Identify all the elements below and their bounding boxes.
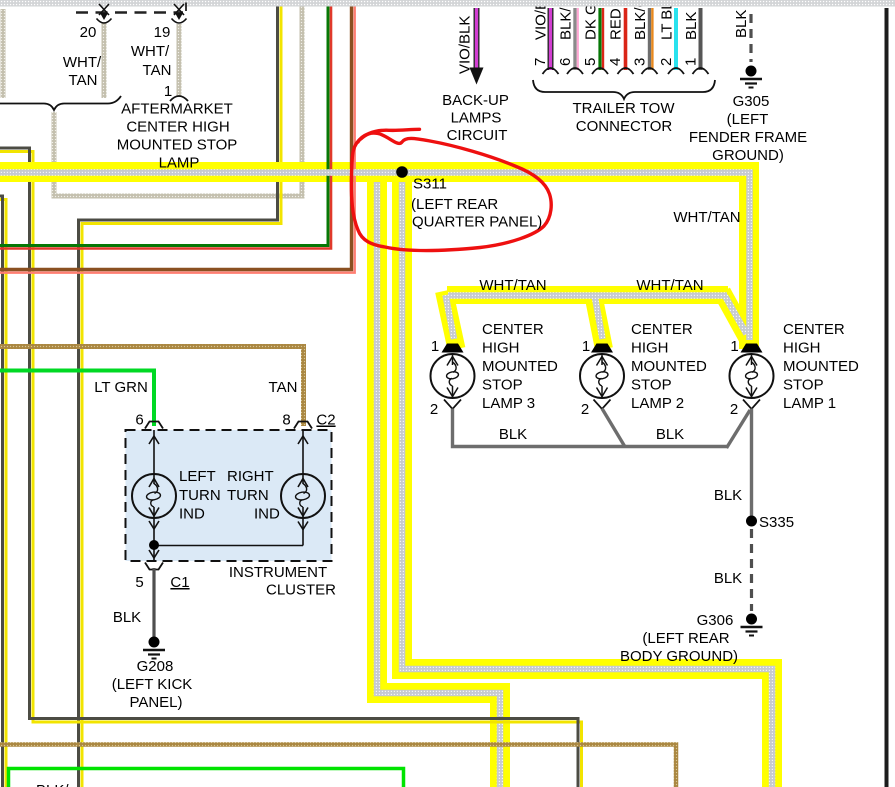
svg-text:QUARTER PANEL): QUARTER PANEL) [412,214,542,231]
highlighted diagonal core lamp 1 [725,296,747,334]
svg-text:1: 1 [730,338,738,355]
stop lamp 1 [730,344,774,410]
svg-text:CENTER: CENTER [631,321,693,338]
trailer pin 4 wire RED [624,8,628,70]
svg-text:S311: S311 [413,176,447,193]
highlighted diagonal to lamp 2 yellow [593,291,605,349]
cluster pin C1 cup [145,563,163,570]
svg-text:LAMP 1: LAMP 1 [783,395,836,412]
svg-text:1: 1 [164,83,172,100]
svg-text:C2: C2 [316,412,335,429]
trailer pin 2 wire LT BLU [674,8,678,70]
trailer pin 3 wire BLK/ORG [650,8,653,70]
svg-text:(LEFT REAR: (LEFT REAR [411,196,498,213]
S335 to G306 BLK dashed [750,529,753,611]
svg-text:3: 3 [632,58,649,66]
wire TAN bottom [0,745,676,787]
svg-text:G305: G305 [733,93,770,110]
svg-text:RIGHT: RIGHT [227,468,274,485]
svg-text:CLUSTER: CLUSTER [266,582,336,599]
svg-text:IND: IND [179,506,205,523]
svg-text:(LEFT: (LEFT [727,111,769,128]
svg-text:S335: S335 [759,514,794,531]
wire WHT/TAN pin 19 to pin 1 [177,24,182,96]
highlighted diagonal to lamp 3 yellow [444,291,457,349]
G306 ground symbol [741,614,763,636]
brace grouping WHT/TAN wires [0,96,121,110]
svg-text:WHT/TAN: WHT/TAN [479,277,546,294]
svg-text:TAN: TAN [69,72,98,89]
G305 wire BLK dashed [749,14,752,62]
top edge gray strip [0,0,895,7]
red annotation circle S311 [351,129,551,250]
wire BRN/RED brown [0,0,352,270]
svg-text:7: 7 [532,58,549,66]
svg-text:2: 2 [430,401,438,418]
wire BLK/YEL pair3 black [79,0,278,787]
trailer pin 5 wire DK GRN/RED [600,8,603,70]
highlighted diagonal to lamp 1 yellow [722,292,749,341]
svg-text:1: 1 [431,338,439,355]
svg-text:BODY GROUND): BODY GROUND) [620,648,738,665]
svg-text:STOP: STOP [783,377,824,394]
wire BLK/YEL pair1 yellow [0,200,6,787]
svg-text:BLK: BLK [656,426,684,443]
highlighted wire B yellow band [377,178,500,787]
svg-text:WHT/: WHT/ [131,43,170,60]
svg-text:CENTER: CENTER [783,321,845,338]
trailer pin 1 wire BLK [699,8,703,70]
svg-text:MOUNTED: MOUNTED [631,358,707,375]
wire BLK/YEL pair3 yellow [82,0,281,787]
svg-text:BLK/: BLK/ [36,782,69,787]
svg-text:TRAILER TOW: TRAILER TOW [573,100,676,117]
svg-text:TURN: TURN [227,487,269,504]
svg-text:INSTRUMENT: INSTRUMENT [229,564,327,581]
svg-text:MOUNTED: MOUNTED [783,358,859,375]
connector end tick [185,3,187,12]
svg-text:G306: G306 [697,612,734,629]
svg-text:CENTER HIGH: CENTER HIGH [126,119,229,136]
splice S335 dot [746,516,757,527]
stop lamp 2 [580,344,624,410]
green box bottom-left [9,769,404,787]
svg-text:19: 19 [154,24,171,41]
svg-text:LAMP: LAMP [159,155,200,172]
highlighted lamp feed yellow band [447,286,728,304]
svg-text:LAMP 2: LAMP 2 [631,395,684,412]
svg-text:FENDER FRAME: FENDER FRAME [689,129,807,146]
highlighted main wire yellow band horizontal + right vertical [0,172,749,349]
svg-text:LAMPS: LAMPS [451,110,502,127]
highlighted wire B gray core [377,178,500,787]
wire BLK/YEL pair1 black [0,196,3,787]
right turn indicator lamp [281,430,325,546]
wire BLK/YEL pair2 black [0,148,578,787]
svg-text:TAN: TAN [269,379,298,396]
svg-text:20: 20 [80,24,97,41]
svg-text:(LEFT KICK: (LEFT KICK [112,676,193,693]
svg-text:MOUNTED STOP: MOUNTED STOP [117,137,238,154]
wire BRN/RED red stripe [0,0,355,273]
svg-text:MOUNTED: MOUNTED [482,358,558,375]
svg-text:(LEFT REAR: (LEFT REAR [642,630,729,647]
svg-text:IND: IND [254,506,280,523]
splice S311 dot [396,166,408,178]
G305 ground symbol [740,66,762,88]
trailer pin 6 wire BLK/PNK [575,8,578,70]
svg-text:PANEL): PANEL) [129,694,182,711]
svg-text:HIGH: HIGH [783,340,821,357]
stop lamp 3 [431,344,475,410]
svg-text:WHT/: WHT/ [63,54,102,71]
instrument cluster box [126,430,332,561]
pin 20 arrow [97,4,112,23]
trailer tow brace [533,80,715,99]
right page border [885,8,889,787]
wire WHT/TAN U-route from brace to top edge [54,0,302,196]
aftermarket lamp pin 1 cup [170,96,188,101]
svg-text:2: 2 [658,58,675,66]
cluster pin 6 cup [145,422,163,429]
svg-text:BLK: BLK [714,487,742,504]
highlighted lamp feed gray core [448,292,727,299]
svg-text:4: 4 [607,58,624,66]
back-up lamps wire VIO/BLK violet [475,8,478,68]
connector dashed line top-left [76,11,183,13]
svg-text:VIO/BLK: VIO/BLK [457,16,474,74]
highlighted main wire gray core [0,173,750,341]
svg-text:BLK: BLK [683,12,700,40]
svg-text:WHT/TAN: WHT/TAN [636,277,703,294]
svg-text:STOP: STOP [631,377,672,394]
svg-text:2: 2 [730,401,738,418]
wire TAN to cluster pin 8 [0,347,304,427]
svg-text:1: 1 [683,58,700,66]
wire BLK/YEL pair2 yellow [0,152,582,787]
svg-text:LEFT: LEFT [179,468,216,485]
wire WHT/TAN left-edge drop [1,9,6,98]
svg-text:C1: C1 [170,574,189,591]
svg-text:6: 6 [135,412,143,429]
left turn indicator lamp [132,430,176,561]
svg-text:AFTERMARKET: AFTERMARKET [121,101,233,118]
svg-text:HIGH: HIGH [631,340,669,357]
svg-text:BLK: BLK [499,426,527,443]
highlighted wire A yellow band [402,180,772,787]
svg-text:CIRCUIT: CIRCUIT [447,127,508,144]
svg-text:LAMP 3: LAMP 3 [482,395,535,412]
wire DK GRN/RED green [0,0,328,246]
wire DK GRN/RED red [0,0,331,249]
svg-text:BLK: BLK [714,570,742,587]
back-up lamps wire VIO/BLK dark edge [474,8,480,68]
svg-text:6: 6 [557,58,574,66]
svg-text:RED: RED [608,8,625,40]
svg-text:LT GRN: LT GRN [94,379,148,396]
svg-text:5: 5 [582,58,599,66]
wire LT GRN to cluster pin 6 [0,371,154,427]
svg-text:BLK: BLK [733,10,750,38]
G208 ground symbol [143,637,165,659]
lamp ground net BLK wires [453,409,752,517]
svg-text:BACK-UP: BACK-UP [442,92,509,109]
wire WHT/TAN pin 20 drop [102,22,107,98]
svg-text:GROUND): GROUND) [712,147,784,164]
wire BLK C1 to G208 [152,568,155,638]
cluster pin 8 cup [294,422,312,429]
svg-text:CONNECTOR: CONNECTOR [576,118,673,135]
highlighted wire A gray core [402,180,772,787]
trailer pin cups [543,68,709,74]
svg-text:CENTER: CENTER [482,321,544,338]
svg-text:TURN: TURN [179,487,221,504]
svg-text:8: 8 [282,412,290,429]
svg-text:G208: G208 [137,658,174,675]
cluster junction dot [149,540,159,550]
svg-text:2: 2 [581,401,589,418]
svg-text:STOP: STOP [482,377,523,394]
pin 19 arrow [172,4,187,23]
highlighted diagonal core lamp 2 [595,295,603,339]
svg-text:5: 5 [135,574,143,591]
highlighted diagonal core lamp 3 [446,295,455,339]
svg-text:BLK: BLK [113,609,141,626]
svg-text:TAN: TAN [143,62,172,79]
svg-text:HIGH: HIGH [482,340,520,357]
back-up arrowhead [470,68,484,85]
cluster internal junction wire [154,545,303,547]
svg-text:WHT/TAN: WHT/TAN [673,209,740,226]
trailer pin 7 wire VIO [548,8,554,70]
svg-text:1: 1 [582,338,590,355]
